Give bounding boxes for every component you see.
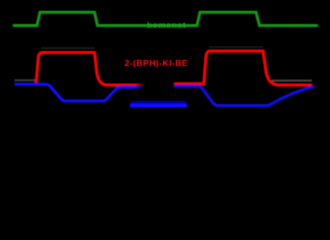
wire: green input square wave [13,12,318,25]
node C: faint ghost line above red top 1 [41,47,95,49]
wire: blue low-side trace 2 [174,86,314,105]
label: blue small text [131,101,186,103]
node E: fade-out of baseline pair before labels [135,76,147,92]
wire: red high-side pulse 1 [36,53,145,86]
wire: red baseline segment 2 and pulse 2 [174,51,312,85]
label: blue text underline bar [130,103,187,107]
wire: blue low-side trace 1 [15,84,145,101]
svg-text:2-(BPH)-KI-BE: 2-(BPH)-KI-BE [125,58,189,68]
node B: dim gray line right end [272,80,312,82]
node D: faint ghost line above red top 2 [209,46,263,48]
node A: dim gray line left start [15,79,37,81]
svg-text:bemenet: bemenet [147,20,186,30]
